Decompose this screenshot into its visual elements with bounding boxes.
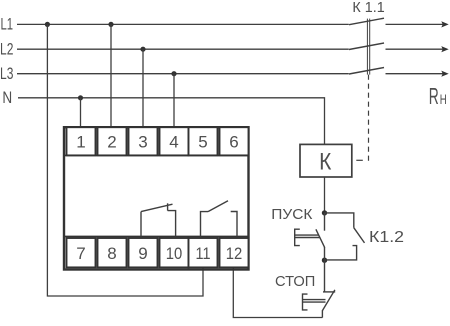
K1.1 dashed link to coil bbox=[368, 75, 370, 161]
wire coil to start node bbox=[324, 177, 326, 213]
wire load phase 3 with arrow bbox=[386, 73, 444, 75]
svg-text:8: 8 bbox=[107, 244, 116, 263]
wire L1 to terminal 11 (left loop) bbox=[47, 24, 203, 296]
terminal 10 bbox=[160, 238, 189, 267]
svg-text:К: К bbox=[319, 149, 331, 176]
svg-text:6: 6 bbox=[229, 133, 238, 152]
node start top bbox=[322, 210, 327, 215]
svg-text:11: 11 bbox=[196, 244, 211, 263]
terminal 6 bbox=[220, 127, 249, 155]
svg-text:К1.2: К1.2 bbox=[369, 229, 404, 246]
terminal 7 bbox=[67, 238, 96, 267]
auxiliary contact K1.2 branch bbox=[325, 213, 365, 260]
svg-text:L2: L2 bbox=[0, 40, 13, 59]
coil K box bbox=[300, 144, 352, 177]
contactor contact K1.1a bbox=[349, 18, 384, 25]
wire L2 to terminal 3 bbox=[142, 49, 144, 127]
wire L3 to terminal 4 bbox=[173, 74, 175, 128]
terminal 11 bbox=[189, 238, 218, 267]
K1.1 mechanical linkage bbox=[367, 19, 369, 75]
terminal 3 bbox=[129, 127, 158, 155]
wire L1 to terminal 2 bbox=[110, 24, 112, 127]
svg-text:7: 7 bbox=[76, 244, 85, 263]
wire L1 line bbox=[17, 23, 349, 25]
node L2 junction bbox=[140, 47, 145, 52]
terminal 12 bbox=[220, 238, 249, 267]
node L1 junction to terminal 2 bbox=[108, 22, 113, 27]
wire L3 line bbox=[17, 73, 349, 75]
svg-text:К 1.1: К 1.1 bbox=[352, 0, 384, 16]
wire load phase 2 with arrow bbox=[386, 48, 444, 50]
svg-text:9: 9 bbox=[138, 244, 147, 263]
wire terminal 12 to stop button bbox=[233, 267, 322, 318]
terminal 8 bbox=[98, 238, 127, 267]
node L3 junction bbox=[171, 71, 176, 76]
terminal 4 bbox=[160, 127, 189, 155]
terminal 1 bbox=[67, 127, 96, 155]
node L1 junction left bbox=[45, 22, 50, 27]
svg-text:Н: Н bbox=[440, 91, 447, 107]
device inner line above bottom terminals bbox=[65, 235, 248, 237]
svg-text:ПУСК: ПУСК bbox=[271, 206, 312, 223]
svg-text:12: 12 bbox=[226, 244, 243, 263]
relay contact 9-10 (closed) bbox=[141, 203, 176, 236]
stop button СТОП (NC) bbox=[303, 260, 336, 317]
svg-text:R: R bbox=[429, 83, 439, 109]
relay device body bbox=[64, 127, 249, 269]
svg-text:СТОП: СТОП bbox=[275, 273, 315, 290]
node start bottom bbox=[322, 258, 327, 263]
svg-text:L3: L3 bbox=[0, 64, 13, 83]
terminal 9 bbox=[129, 238, 158, 267]
relay contact 11-12 (open) bbox=[201, 201, 238, 237]
wire L2 line bbox=[17, 48, 349, 50]
node N junction bbox=[78, 95, 83, 100]
terminal 2 bbox=[98, 127, 127, 155]
wire N line to coil bbox=[18, 98, 325, 144]
svg-text:4: 4 bbox=[169, 133, 178, 152]
svg-text:3: 3 bbox=[138, 133, 147, 152]
svg-text:10: 10 bbox=[166, 244, 183, 263]
contactor contact K1.1b bbox=[349, 43, 384, 50]
svg-text:N: N bbox=[2, 88, 12, 107]
svg-text:5: 5 bbox=[198, 133, 207, 152]
wire load phase 1 with arrow bbox=[386, 23, 444, 25]
wire N to terminal 1 bbox=[80, 98, 82, 128]
svg-text:2: 2 bbox=[107, 133, 116, 152]
start button ПУСК (NO) bbox=[295, 213, 325, 260]
svg-text:L1: L1 bbox=[1, 15, 14, 34]
contactor contact K1.1c bbox=[349, 68, 384, 75]
svg-text:1: 1 bbox=[76, 133, 85, 152]
terminal 5 bbox=[189, 127, 218, 155]
device inner line below top terminals bbox=[65, 154, 248, 156]
